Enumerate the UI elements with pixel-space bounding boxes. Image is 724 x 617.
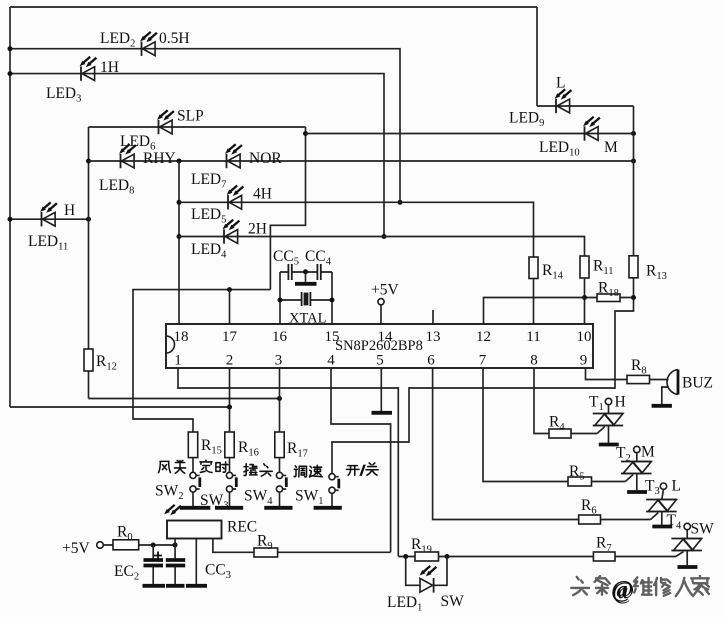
svg-text:LED3: LED3 — [46, 85, 81, 105]
resistor R7 — [593, 552, 615, 561]
svg-text:SLP: SLP — [177, 108, 204, 125]
wire top border — [10, 6, 537, 8]
wire LED2 row 0.5H — [10, 49, 400, 203]
svg-text:3: 3 — [275, 353, 283, 369]
wire LED column x179 to pin 18 — [178, 161, 180, 324]
label EC2 — [114, 563, 139, 583]
label R15 R16 R17 — [201, 437, 308, 460]
wire left border — [9, 7, 11, 407]
wire pin 4 down to R9 row — [331, 368, 391, 552]
LED LED11 — [40, 202, 57, 226]
ground T2 — [627, 490, 647, 494]
LED LED2 — [140, 32, 157, 56]
svg-text:L: L — [556, 75, 565, 92]
node pin3 wire junction — [277, 396, 282, 401]
LED LED4 — [223, 220, 240, 244]
svg-text:NOR: NOR — [249, 150, 282, 167]
svg-text:6: 6 — [427, 353, 435, 369]
label R8 — [631, 357, 647, 377]
svg-text:H: H — [615, 394, 626, 411]
label R6 — [581, 497, 597, 517]
label LED4 2H — [191, 221, 267, 261]
svg-text:XTAL: XTAL — [289, 311, 327, 327]
svg-text:RHY: RHY — [143, 150, 176, 167]
switch SW3 — [226, 458, 236, 506]
wire +5V rail R0 to REC — [104, 544, 176, 546]
node H row junctions — [8, 217, 92, 222]
wire REC middle leg — [195, 539, 197, 585]
svg-text:13: 13 — [426, 329, 441, 345]
node NOR row junctions — [177, 159, 637, 164]
wire LED10 M row — [306, 133, 634, 135]
label +5V bottom — [62, 540, 90, 557]
wire pin 7 down to R5 row — [483, 368, 568, 482]
ground pin 5 — [372, 411, 393, 415]
wire EC2 leads — [152, 545, 154, 584]
svg-text:LED8: LED8 — [99, 177, 134, 197]
ground T3 — [652, 525, 672, 529]
label IC part number — [335, 338, 423, 354]
resistor R8 — [627, 375, 650, 383]
resistor R13 — [629, 256, 638, 278]
label pin numbers bottom row — [174, 353, 587, 369]
label LED10 M — [539, 139, 618, 159]
label LED6 SLP — [120, 108, 204, 153]
label yaotou oscillate — [244, 464, 272, 476]
wire pin 2 down to R16 — [229, 368, 231, 432]
wire pin 17 stub — [229, 290, 231, 324]
resistor R16 — [225, 432, 234, 458]
node R18 left junction pin10 R11 — [582, 295, 587, 300]
resistor R0 — [113, 540, 139, 550]
resistor R12 — [84, 349, 93, 371]
crystal XTAL — [302, 292, 311, 306]
label R12 — [96, 353, 117, 373]
wire REC right leg to R9 — [212, 539, 214, 553]
LED LED3 — [80, 57, 97, 81]
svg-text:2H: 2H — [248, 221, 267, 238]
transistor Q4 triac T4 — [671, 523, 702, 565]
wire 4H row to R14 to pin 11 — [179, 202, 534, 324]
label CC3 — [205, 562, 231, 582]
LED LED5 — [227, 186, 244, 210]
svg-text:LED9: LED9 — [509, 110, 544, 130]
node LED10 row branch — [303, 131, 308, 136]
watermark toutiao weixiurenjia — [571, 576, 710, 604]
wire pin 13 stub — [432, 310, 434, 324]
resistor R4 — [549, 429, 571, 438]
ground BUZ — [652, 404, 672, 408]
svg-text:4H: 4H — [253, 186, 272, 203]
label T3 L — [645, 478, 681, 498]
wire R8 to buzzer — [650, 379, 669, 381]
label fenglei wind type — [159, 460, 186, 473]
label R5 — [569, 463, 585, 483]
switch SW1 — [329, 474, 339, 506]
label R18 — [598, 280, 619, 300]
LED LED8 — [119, 144, 136, 168]
wire RHY NOR row — [89, 160, 634, 162]
label T4 SW — [667, 512, 715, 538]
label T1 H — [589, 394, 626, 414]
node R19 left right junctions — [403, 554, 449, 559]
label kai/guan on/off — [347, 463, 379, 479]
svg-text:M: M — [604, 139, 618, 156]
wire LED3 row 1H — [10, 74, 384, 237]
svg-text:4: 4 — [327, 353, 335, 369]
label LED9 L — [509, 75, 565, 130]
svg-text:2: 2 — [226, 353, 234, 369]
label R11 — [593, 258, 613, 278]
resistor R5 — [568, 477, 592, 486]
wire pin 3 down to R17 — [279, 368, 281, 432]
label T2 M — [616, 444, 655, 465]
svg-text:+5V: +5V — [371, 282, 399, 299]
wire crystal left rail to pin 16 — [280, 272, 302, 324]
resistor R9 — [254, 548, 278, 557]
resistor R15 — [188, 432, 197, 458]
REC infrared receiver box — [164, 505, 221, 539]
svg-text:BUZ: BUZ — [682, 375, 713, 392]
svg-text:14: 14 — [378, 329, 394, 345]
svg-text:@: @ — [611, 577, 633, 603]
power +5V at pin 14 — [378, 299, 384, 324]
node pin2 junction y407 — [227, 405, 232, 410]
svg-text:15: 15 — [325, 329, 340, 345]
wire CC3 leads — [174, 545, 176, 584]
label R19 — [411, 536, 432, 556]
node LED10 row right junction — [631, 131, 636, 136]
wire R4 to T1 gate — [571, 433, 597, 435]
label tiaosu speed — [294, 465, 322, 477]
ground SW2 — [180, 506, 211, 510]
ground SW3 — [215, 506, 243, 510]
node 4H 2H junctions on x179 — [177, 200, 182, 239]
switch SW2 — [190, 458, 200, 506]
buzzer BUZ — [662, 370, 678, 405]
capacitor CC4 — [317, 264, 320, 280]
svg-text:8: 8 — [530, 353, 538, 369]
label pin numbers top row — [174, 329, 592, 345]
wire left border to SW3 column (pin 2 net) — [10, 406, 230, 408]
svg-text:LED5: LED5 — [191, 206, 226, 226]
transistor Q2 triac T2 — [621, 446, 652, 490]
svg-text:11: 11 — [526, 329, 540, 345]
ground CC3 — [166, 584, 185, 588]
svg-text:+5V: +5V — [62, 540, 90, 557]
label LED8 RHY — [99, 150, 176, 197]
ground EC2 — [143, 584, 166, 588]
label LED11 H — [28, 202, 75, 253]
svg-text:L: L — [672, 478, 681, 495]
wire R19 R7 row — [398, 556, 676, 558]
svg-text:18: 18 — [174, 329, 189, 345]
node R18 right junction R13 — [631, 295, 636, 300]
label SW2 SW3 SW4 SW1 — [155, 483, 324, 512]
capacitor CC3 — [166, 560, 185, 566]
label R14 — [542, 262, 564, 282]
transistor Q1 triac T1 — [593, 398, 624, 443]
label R13 — [646, 263, 667, 283]
svg-text:0.5H: 0.5H — [159, 30, 190, 47]
label BUZ — [682, 375, 713, 392]
LED LED9 — [555, 89, 572, 113]
svg-text:LED1: LED1 — [387, 594, 422, 614]
ground crystal caps — [295, 282, 317, 286]
wire pin 1 long row to LED1 R19 column — [178, 368, 398, 557]
wire pin17 row to R15 — [133, 290, 270, 432]
wire R9 row REC to pin4 column — [213, 551, 391, 553]
label CC5 CC4 — [273, 248, 332, 268]
op-amp U1 IC SN8P2602BP8 body — [166, 324, 593, 368]
svg-text:H: H — [64, 202, 75, 219]
wire SLP box right edge jog to pin17 row — [270, 127, 305, 290]
label +5V top — [371, 282, 399, 299]
resistor R6 — [579, 515, 601, 524]
label REC — [227, 519, 257, 536]
wire R5 to T2 gate — [592, 481, 626, 483]
wire pin 9 to R8 — [586, 368, 628, 380]
wire SLP row — [89, 126, 306, 128]
ground T1 — [599, 443, 619, 447]
svg-text:17: 17 — [222, 329, 238, 345]
svg-text:SW: SW — [691, 521, 715, 538]
power +5V terminal bottom — [97, 542, 104, 549]
label R0 — [117, 524, 133, 544]
resistor R11 — [580, 256, 589, 278]
ground SW4 — [264, 506, 292, 510]
label XTAL — [289, 311, 327, 327]
label LED1 SW — [387, 593, 464, 614]
label R4 — [549, 414, 565, 434]
resistor R18 — [597, 294, 620, 302]
node RHY row left junction — [86, 159, 91, 164]
wire LED9 net: top border down, L row, right bus to R13, jog to on-off switch — [332, 7, 634, 473]
resistor R14 — [529, 257, 538, 279]
svg-text:LED7: LED7 — [191, 171, 226, 191]
wire pin 8 down to R4 row — [534, 368, 549, 434]
switch SW4 — [276, 458, 286, 506]
resistor R17 — [275, 432, 284, 458]
ground T4 — [678, 565, 698, 569]
svg-text:10: 10 — [577, 329, 592, 345]
label R7 — [596, 535, 612, 555]
transistor Q3 triac T3 — [646, 483, 677, 525]
wire pin 6 down to R6 row — [433, 368, 579, 520]
LED LED10 — [583, 117, 600, 141]
LED LED7 — [225, 144, 242, 168]
wire REC left leg — [174, 539, 176, 546]
label LED5 4H — [191, 186, 272, 226]
svg-text:M: M — [641, 444, 655, 461]
wire 2H row to R11 to pin 10 — [179, 237, 585, 325]
svg-text:REC: REC — [227, 519, 257, 536]
LED LED1 pointing right — [420, 566, 437, 593]
node LED3 row junction — [8, 71, 387, 239]
capacitor EC2 electrolytic — [144, 552, 164, 566]
label dingshi timer — [200, 460, 228, 472]
ground SW1 — [314, 506, 342, 510]
svg-text:1H: 1H — [100, 59, 119, 76]
wire LED1 parallel branch — [406, 557, 447, 586]
node LED2 row junction — [8, 46, 403, 205]
LED LED6 — [157, 110, 174, 134]
resistor R19 — [415, 552, 439, 561]
node pin17 junction — [227, 287, 232, 292]
label LED3 1H — [46, 59, 119, 105]
svg-text:16: 16 — [272, 329, 288, 345]
svg-text:SW: SW — [441, 593, 465, 610]
svg-text:1: 1 — [174, 353, 182, 369]
wire LED11 H row — [10, 218, 89, 220]
wire crystal right rail to pin 15 — [310, 272, 332, 324]
svg-text:5: 5 — [376, 353, 384, 369]
wire CC5 CC4 middle junction to ground — [292, 269, 318, 282]
node EC2 CC3 junctions — [151, 543, 178, 548]
label LED7 NOR — [191, 150, 282, 191]
wire R18 leads — [585, 297, 634, 299]
ground REC — [186, 584, 207, 588]
svg-text:12: 12 — [476, 329, 491, 345]
label R9 — [257, 533, 273, 553]
svg-text:LED2: LED2 — [100, 30, 135, 50]
svg-text:9: 9 — [580, 353, 588, 369]
wire left LED column x88 through R12 to pin3 row — [89, 127, 280, 399]
wire R6 to T3 gate — [601, 519, 651, 521]
capacitor CC5 — [288, 264, 291, 280]
wire pin 12 to R18 left node — [484, 298, 585, 325]
node crystal rail junctions — [278, 298, 335, 303]
wire pin 5 to ground — [380, 368, 382, 412]
label LED2 0.5H — [100, 30, 190, 50]
svg-text:7: 7 — [479, 353, 487, 369]
